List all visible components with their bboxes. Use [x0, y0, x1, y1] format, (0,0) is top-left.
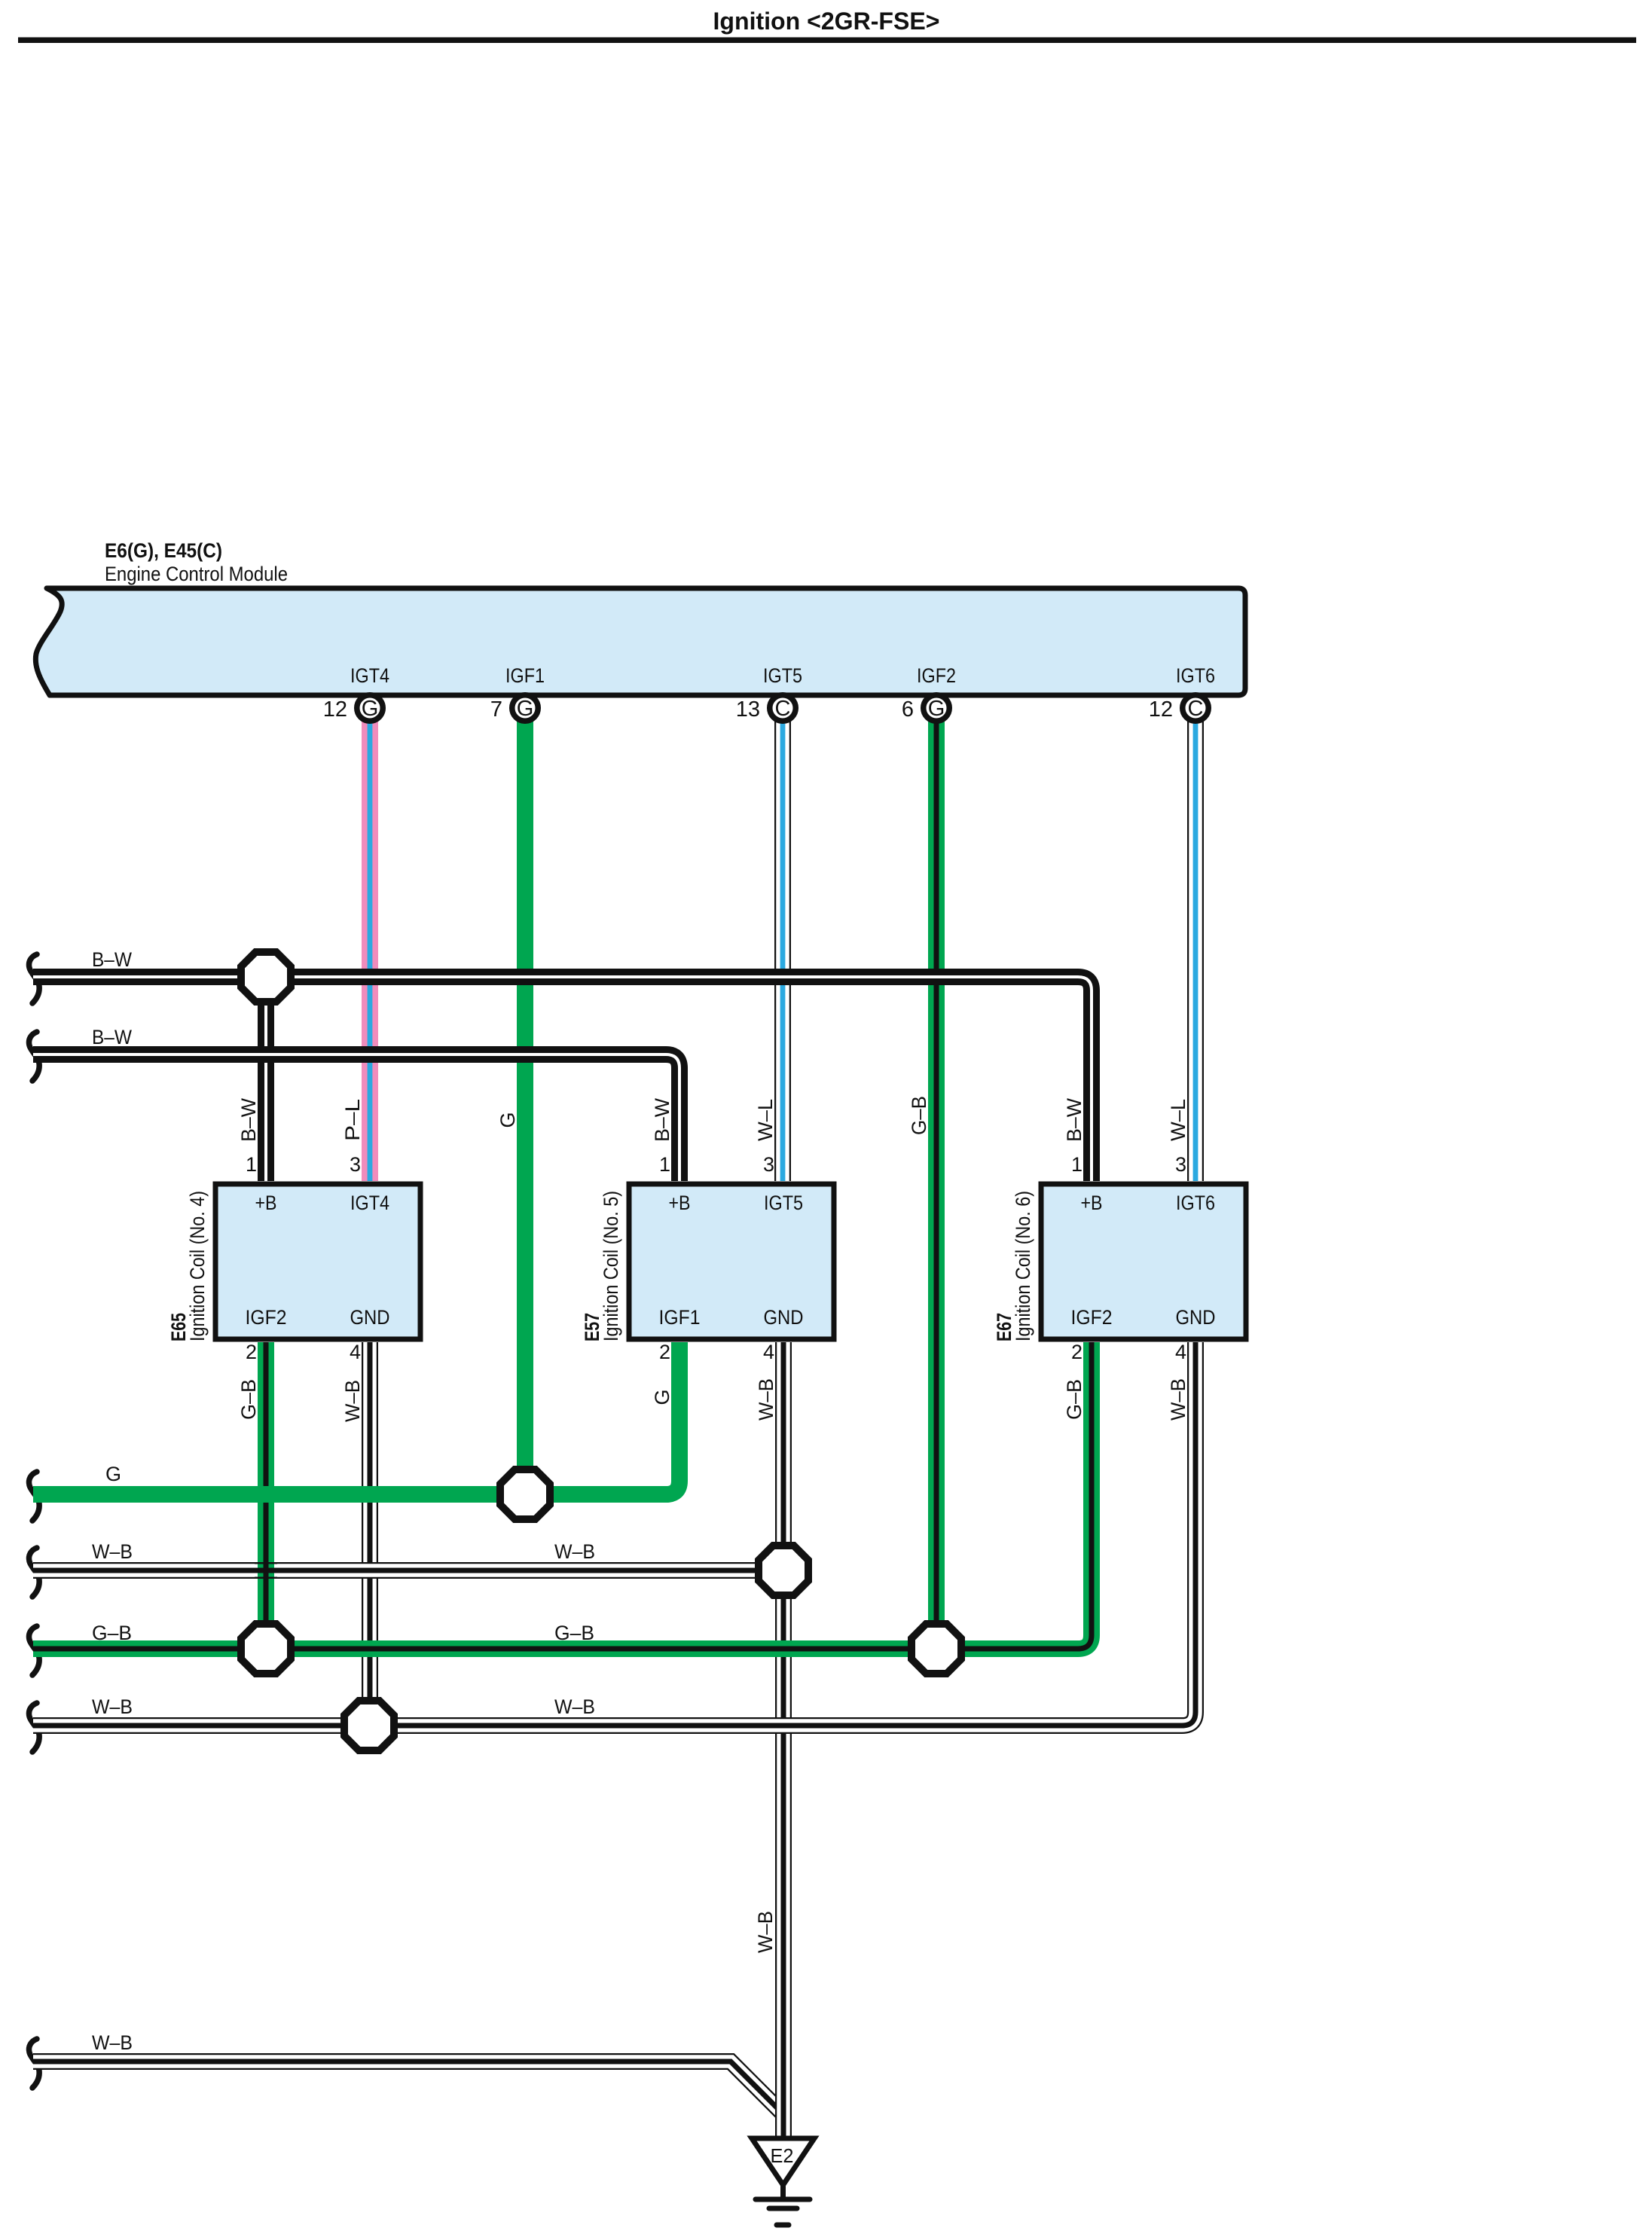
svg-text:IGT5: IGT5	[764, 1192, 803, 1214]
svg-text:GND: GND	[764, 1306, 804, 1329]
wire W-B : feed to junction with coil E57 GND wire	[29, 1540, 783, 1597]
svg-text:Engine Control Module: Engine Control Module	[105, 563, 288, 585]
svg-text:W–B: W–B	[341, 1380, 364, 1422]
title rule	[18, 38, 1636, 44]
svg-text:1: 1	[1071, 1153, 1083, 1176]
junction G-B right (1243,2189)	[912, 1624, 961, 1674]
svg-text:W–B: W–B	[554, 1695, 595, 1718]
svg-text:IGF1: IGF1	[505, 664, 545, 687]
svg-text:G–B: G–B	[554, 1622, 594, 1644]
svg-text:B–W: B–W	[92, 1026, 132, 1048]
svg-text:W–B: W–B	[1167, 1378, 1189, 1421]
wire P-L : ECM IGT4 pin 12 to coil E65 IGT4 pin 3	[341, 716, 370, 1181]
svg-text:13: 13	[736, 697, 760, 722]
wire G-B : feed to coil E67 IGF2 pin 2, junctions at E65 IGF2 and ECM IGF2 wires	[29, 1342, 1092, 1675]
svg-text:W–B: W–B	[92, 2031, 133, 2054]
svg-text:B–W: B–W	[651, 1097, 673, 1142]
svg-text:G: G	[362, 697, 379, 721]
svg-text:G: G	[651, 1389, 673, 1405]
svg-text:C: C	[1188, 697, 1204, 721]
ECM pin 13 IGT5 (C)	[736, 664, 802, 722]
wire W-B : coil E65 GND pin 4 down to junction	[341, 1342, 370, 1726]
svg-text:1: 1	[659, 1153, 670, 1176]
svg-text:4: 4	[1175, 1341, 1186, 1363]
wire G-B : coil E65 IGF2 pin 2 down to junction	[237, 1342, 266, 1649]
svg-text:6: 6	[902, 697, 914, 722]
wire W-B : coil E57 GND pin 4 down to ground E2	[754, 1342, 783, 2139]
ECM pin 6 IGF2 (G)	[902, 664, 956, 722]
junction W-B lower (490,2291)	[344, 1701, 394, 1750]
junction B-W (353,1297)	[241, 952, 291, 1002]
svg-text:IGT6: IGT6	[1176, 664, 1215, 687]
svg-text:2: 2	[1071, 1341, 1083, 1363]
svg-text:G–B: G–B	[1063, 1379, 1086, 1420]
wire G : feed joining ECM IGF1 wire and coil E57 IGF1 pin 2	[29, 1342, 679, 1521]
svg-text:W–L: W–L	[754, 1099, 777, 1141]
svg-text:G: G	[105, 1463, 121, 1485]
svg-text:+B: +B	[1081, 1192, 1103, 1214]
svg-text:Ignition Coil (No. 5): Ignition Coil (No. 5)	[600, 1191, 622, 1341]
svg-text:W–L: W–L	[1167, 1099, 1189, 1141]
svg-text:3: 3	[350, 1153, 361, 1176]
svg-text:W–B: W–B	[92, 1540, 133, 1563]
wire G : ECM IGF1 pin 7 down to junction	[496, 716, 525, 1494]
wire G-B over W-B crossing detail at (353,2085)	[255, 1559, 277, 1582]
svg-text:2: 2	[659, 1341, 670, 1363]
wire W-B : feed to coil E67 GND pin 4, junction at E65 GND wire	[29, 1342, 1195, 1752]
svg-text:GND: GND	[350, 1306, 390, 1329]
svg-text:2: 2	[246, 1341, 257, 1363]
svg-text:G–B: G–B	[908, 1096, 930, 1135]
svg-text:GND: GND	[1176, 1306, 1216, 1329]
ECM pin 12 IGT4 (G)	[323, 664, 389, 722]
svg-text:W–B: W–B	[92, 1695, 133, 1718]
svg-text:G: G	[928, 697, 945, 721]
svg-text:Ignition <2GR-FSE>: Ignition <2GR-FSE>	[713, 8, 940, 35]
ignition coil E65 Ignition Coil (No. 4)	[167, 1153, 420, 1363]
ECM pin 7 IGF1 (G)	[490, 664, 545, 722]
svg-text:4: 4	[350, 1341, 361, 1363]
svg-text:3: 3	[763, 1153, 774, 1176]
ignition coil E67 Ignition Coil (No. 6)	[993, 1153, 1246, 1363]
svg-text:B–W: B–W	[92, 948, 132, 971]
wire W-L : ECM IGT6 pin 12 to coil E67 IGT6 pin 3	[1167, 716, 1195, 1181]
svg-text:W–B: W–B	[754, 1911, 777, 1953]
svg-text:IGT4: IGT4	[350, 1192, 389, 1214]
junction G-B left (353,2189)	[241, 1624, 291, 1674]
svg-text:+B: +B	[255, 1192, 277, 1214]
svg-text:4: 4	[763, 1341, 774, 1363]
svg-text:IGF2: IGF2	[1071, 1306, 1113, 1329]
svg-text:B–W: B–W	[1063, 1097, 1086, 1142]
svg-text:W–B: W–B	[554, 1540, 595, 1563]
svg-text:12: 12	[1149, 697, 1173, 722]
ECM E6(G), E45(C) Engine Control Module	[35, 539, 1245, 695]
svg-text:Ignition Coil (No. 4): Ignition Coil (No. 4)	[186, 1191, 209, 1341]
svg-text:3: 3	[1175, 1153, 1186, 1176]
ECM pin 12 IGT6 (C)	[1149, 664, 1215, 722]
svg-text:G–B: G–B	[92, 1622, 132, 1644]
svg-text:+B: +B	[669, 1192, 691, 1214]
svg-text:1: 1	[246, 1153, 257, 1176]
svg-text:G: G	[517, 697, 534, 721]
svg-text:IGF1: IGF1	[659, 1306, 701, 1329]
svg-text:G–B: G–B	[237, 1379, 260, 1420]
ground E2	[752, 2138, 814, 2225]
svg-text:W–B: W–B	[755, 1378, 777, 1421]
svg-text:IGT5: IGT5	[763, 664, 802, 687]
wire W-L : ECM IGT5 pin 13 to coil E57 IGT5 pin 3	[754, 716, 783, 1181]
wire G-B : ECM IGF2 pin 6 down to junction on G-B line	[908, 716, 936, 1649]
svg-text:B–W: B–W	[237, 1097, 260, 1142]
svg-text:G: G	[496, 1112, 519, 1128]
svg-text:7: 7	[490, 697, 502, 722]
svg-text:C: C	[775, 697, 791, 721]
wire W-B : bottom feed merging into ground wire	[29, 2031, 783, 2114]
wire B-W : junction to coil E65 +B pin 1	[237, 977, 266, 1181]
svg-text:E2: E2	[771, 2144, 794, 2167]
svg-text:IGF2: IGF2	[917, 664, 956, 687]
svg-text:12: 12	[323, 697, 347, 722]
svg-text:IGF2: IGF2	[246, 1306, 287, 1329]
ignition coil E57 Ignition Coil (No. 5)	[581, 1153, 834, 1363]
svg-text:E6(G), E45(C): E6(G), E45(C)	[105, 539, 222, 562]
junction W-B (1040,2085)	[759, 1546, 808, 1595]
svg-text:IGT4: IGT4	[350, 664, 389, 687]
svg-text:IGT6: IGT6	[1176, 1192, 1215, 1214]
svg-text:Ignition Coil (No. 6): Ignition Coil (No. 6)	[1012, 1191, 1034, 1341]
wire B-W : feed to coil E57 +B pin 1	[29, 1026, 679, 1181]
wire B-W : feed to coils E65 (via junction) and E67 +B pin 1	[29, 948, 1092, 1181]
junction G (697,1984)	[500, 1469, 550, 1519]
svg-text:P–L: P–L	[341, 1099, 364, 1141]
